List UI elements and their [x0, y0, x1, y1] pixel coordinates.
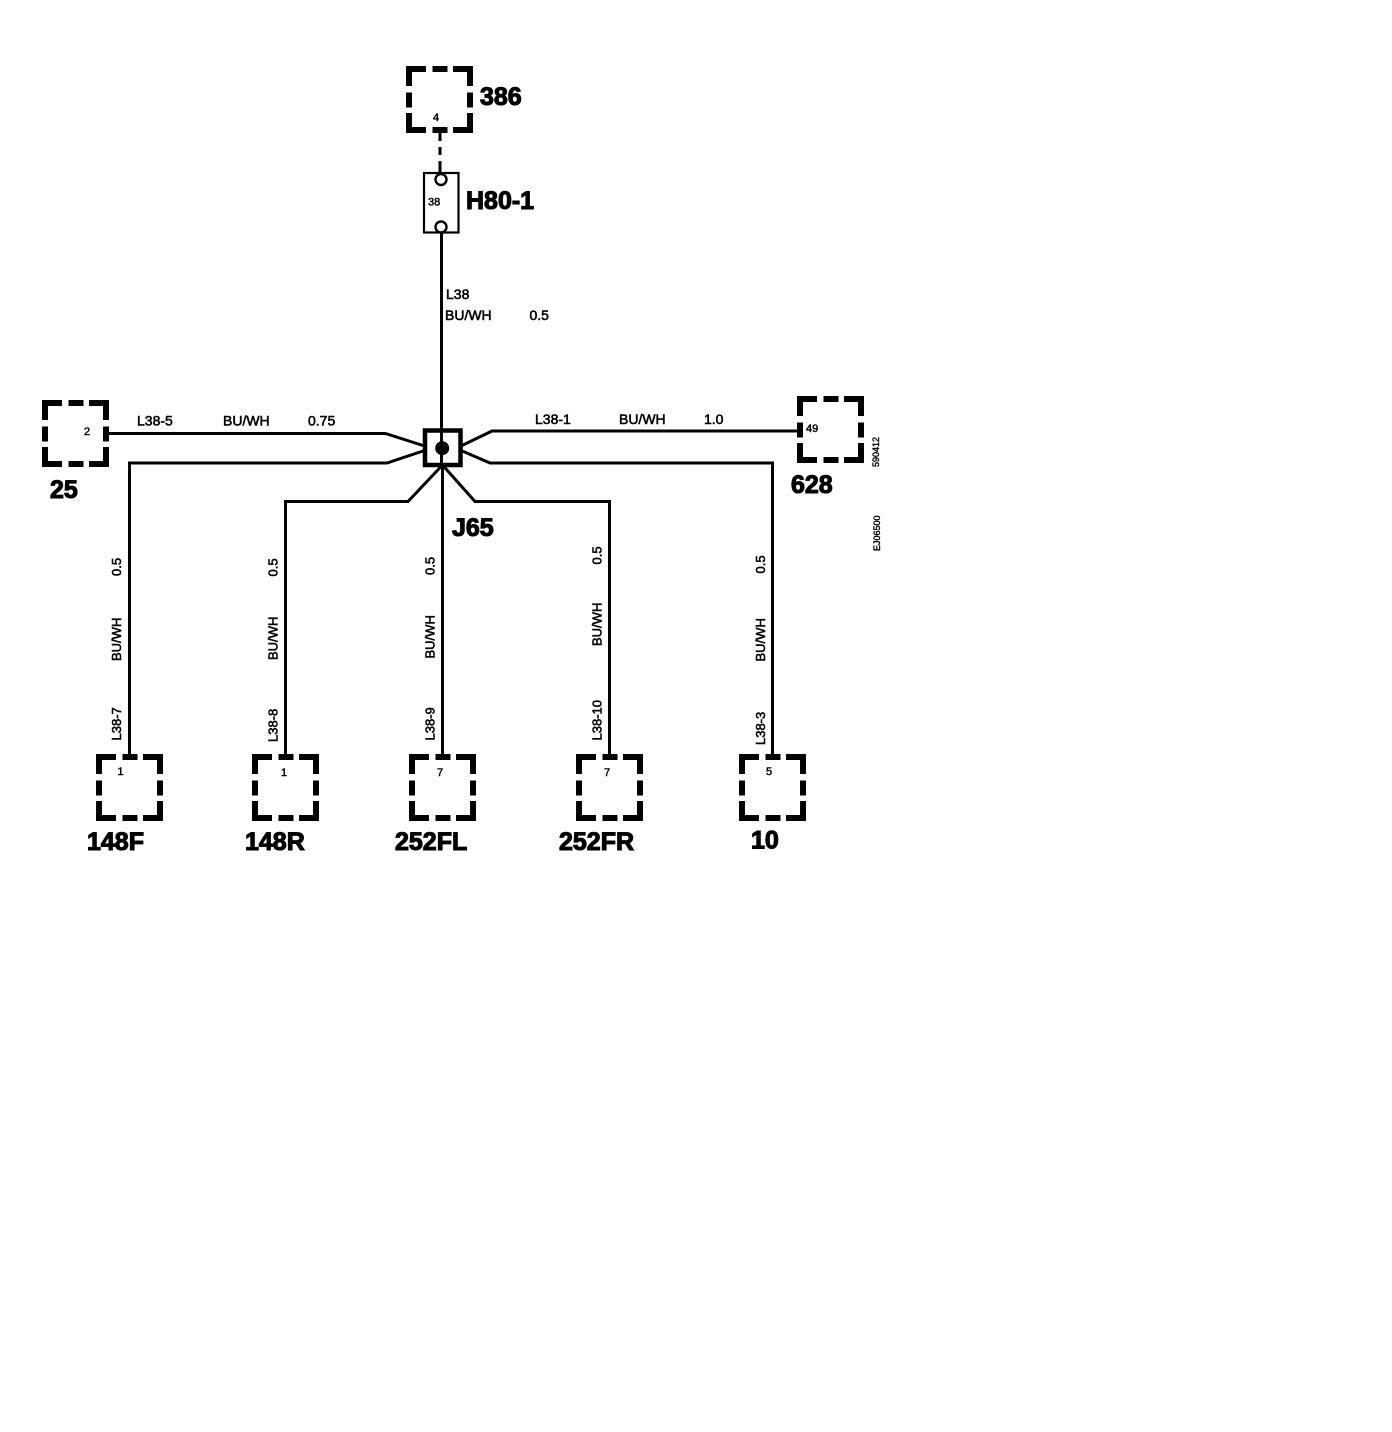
svg-text:1: 1 [281, 767, 287, 779]
svg-text:L38-9: L38-9 [423, 707, 438, 740]
svg-text:628: 628 [791, 471, 833, 499]
svg-text:L38-1: L38-1 [535, 411, 571, 427]
svg-text:BU/WH: BU/WH [590, 603, 605, 646]
svg-text:H80-1: H80-1 [466, 187, 534, 215]
svg-text:0.5: 0.5 [266, 558, 281, 576]
svg-text:1.0: 1.0 [704, 411, 724, 427]
svg-text:38: 38 [428, 197, 440, 209]
svg-text:386: 386 [480, 83, 522, 111]
svg-text:BU/WH: BU/WH [266, 617, 281, 660]
svg-text:0.75: 0.75 [308, 413, 335, 429]
svg-text:0.5: 0.5 [590, 546, 605, 564]
svg-text:BU/WH: BU/WH [445, 307, 492, 323]
svg-text:J65: J65 [452, 514, 494, 542]
svg-text:5: 5 [766, 766, 772, 778]
svg-text:4: 4 [433, 112, 439, 124]
svg-text:L38-3: L38-3 [753, 712, 768, 745]
svg-text:148R: 148R [245, 828, 305, 856]
svg-text:590412: 590412 [871, 437, 881, 467]
svg-text:BU/WH: BU/WH [753, 618, 768, 661]
svg-text:L38: L38 [446, 286, 470, 302]
svg-text:0.5: 0.5 [530, 307, 550, 323]
svg-text:L38-5: L38-5 [137, 413, 173, 429]
svg-text:0.5: 0.5 [109, 558, 124, 576]
svg-text:BU/WH: BU/WH [619, 411, 666, 427]
svg-text:EJ06500: EJ06500 [872, 515, 882, 551]
svg-text:252FL: 252FL [395, 828, 467, 856]
svg-text:7: 7 [437, 767, 443, 779]
svg-text:L38-10: L38-10 [590, 700, 605, 740]
svg-text:7: 7 [604, 767, 610, 779]
svg-text:0.5: 0.5 [753, 555, 768, 573]
svg-text:1: 1 [118, 766, 124, 778]
svg-text:252FR: 252FR [559, 828, 634, 856]
svg-text:148F: 148F [87, 828, 144, 856]
svg-text:25: 25 [50, 476, 78, 504]
svg-text:2: 2 [84, 426, 90, 438]
svg-text:BU/WH: BU/WH [423, 615, 438, 658]
svg-text:BU/WH: BU/WH [109, 618, 124, 661]
svg-text:BU/WH: BU/WH [223, 413, 270, 429]
svg-text:10: 10 [751, 827, 779, 855]
svg-text:L38-8: L38-8 [266, 709, 281, 742]
svg-text:49: 49 [806, 423, 818, 435]
svg-text:L38-7: L38-7 [109, 707, 124, 740]
svg-text:0.5: 0.5 [423, 557, 438, 575]
